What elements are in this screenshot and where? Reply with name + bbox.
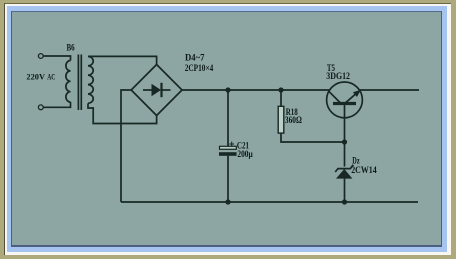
transformer B6 secondary winding (88, 56, 93, 103)
svg-text:200μ: 200μ (237, 149, 252, 159)
transistor T5 circle (327, 82, 363, 118)
bridge diode cathode bar (160, 83, 162, 97)
wire: lower terminal to transformer primary (43, 102, 70, 107)
bottom ground rail (121, 201, 418, 203)
junction dot at capacitor top (225, 87, 230, 92)
svg-text:2CW14: 2CW14 (351, 165, 377, 175)
junction dot capacitor-ground (225, 199, 230, 204)
wire: capacitor C21 bottom branch (227, 156, 229, 202)
junction dot at base-zener node (342, 139, 347, 144)
transistor T5 base bar (333, 102, 356, 105)
svg-text:B6: B6 (67, 43, 76, 53)
wire: bridge left vertex down to ground rail (121, 90, 131, 202)
wire: bridge right vertex to transistor collector (positive rail) (182, 89, 330, 91)
resistor R18 body (278, 106, 284, 133)
capacitor C21 plus sign (229, 142, 234, 147)
svg-text:3DG12: 3DG12 (326, 71, 350, 81)
zener diode Dz triangle (336, 169, 352, 179)
wire: upper terminal to transformer primary (43, 56, 70, 61)
junction dot at resistor top (278, 87, 283, 92)
capacitor C21 bottom plate (219, 152, 237, 156)
wire: capacitor C21 top branch (227, 90, 229, 146)
svg-text:Dz: Dz (352, 156, 359, 166)
wire: transistor base down through zener node (344, 104, 346, 167)
junction dot zener-ground (342, 199, 347, 204)
wire: secondary bottom to bridge bottom vertex (88, 103, 157, 123)
terminal node top-left (220V AC input, upper) (38, 54, 43, 59)
transistor T5 collector diagonal (329, 91, 341, 103)
wire: emitter output to right edge (360, 89, 419, 91)
capacitor C21 top plate (220, 146, 237, 149)
zener diode Dz cathode bar with hooks (335, 165, 353, 172)
bridge rectifier D4~7 diamond (131, 65, 182, 116)
terminal node bottom-left (220V AC input, lower) (38, 105, 43, 110)
svg-text:AC: AC (47, 71, 55, 81)
svg-text:2CP10×4: 2CP10×4 (185, 63, 214, 73)
bridge diode cathode lead (162, 89, 171, 91)
svg-text:D4~7: D4~7 (185, 52, 205, 62)
wire: zener anode to ground rail (344, 179, 346, 202)
svg-text:220V: 220V (26, 71, 45, 81)
wire: resistor R18 bottom lead to base node (281, 133, 345, 143)
transistor T5 emitter diagonal (346, 92, 359, 103)
transformer B6 primary winding (66, 61, 71, 103)
transformer B6 core (78, 55, 81, 111)
bridge diode anode lead (143, 89, 152, 91)
bridge diode triangle (152, 84, 162, 96)
wire: resistor R18 top lead (280, 90, 282, 107)
transistor T5 emitter arrowhead (353, 90, 361, 97)
wire: secondary top to bridge top vertex (88, 56, 157, 64)
svg-text:360Ω: 360Ω (285, 115, 302, 125)
